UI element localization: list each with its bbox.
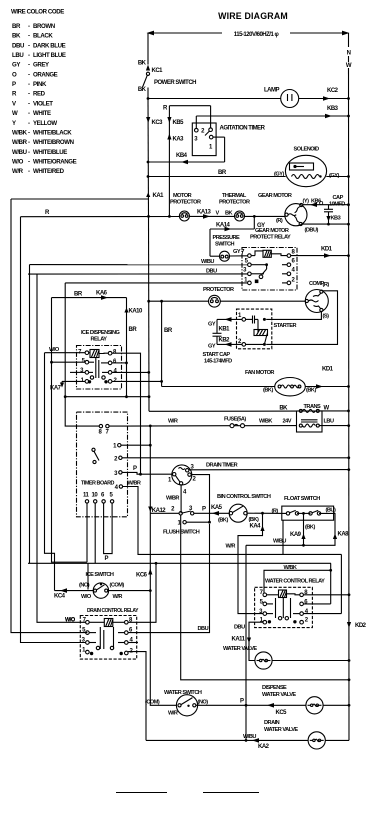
svg-text:(BU): (BU) xyxy=(326,508,336,514)
svg-text:KA10: KA10 xyxy=(129,309,144,315)
svg-text:KD2: KD2 xyxy=(355,623,367,629)
svg-text:W: W xyxy=(324,406,330,412)
drain water valve L4 xyxy=(264,720,325,749)
svg-text:KC2: KC2 xyxy=(327,88,339,94)
svg-text:KC6: KC6 xyxy=(136,573,148,579)
svg-text:KA14: KA14 xyxy=(216,223,231,229)
svg-text:KC5: KC5 xyxy=(276,710,288,716)
wire: KD1 from relay pin8 to bus xyxy=(291,247,350,258)
timer board U3 xyxy=(77,412,128,517)
capacitor C2 start cap xyxy=(203,319,233,364)
wire: W/BU line to relay pin5 xyxy=(30,259,248,265)
wire: water valve to bus xyxy=(272,659,350,662)
svg-text:KA9: KA9 xyxy=(290,532,302,538)
svg-text:FAN MOTOR: FAN MOTOR xyxy=(245,370,274,376)
svg-text:MOTOR: MOTOR xyxy=(173,193,192,199)
lamp DS1 xyxy=(281,90,299,108)
svg-text:KB2: KB2 xyxy=(219,338,231,344)
wire: BR KA6 line xyxy=(52,291,127,300)
fuse F1 xyxy=(230,424,245,428)
svg-text:SWITCH: SWITCH xyxy=(215,242,235,248)
svg-text:PROTECTOR: PROTECTOR xyxy=(170,200,201,206)
svg-text:KC1: KC1 xyxy=(152,68,164,74)
svg-text:WHITE/BROWN: WHITE/BROWN xyxy=(33,139,74,146)
wire: R line xyxy=(21,210,180,217)
svg-text:W/BK: W/BK xyxy=(284,565,297,571)
svg-text:GEAR MOTOR: GEAR MOTOR xyxy=(258,193,292,199)
drain control relay K4 xyxy=(80,608,138,659)
node KA13 xyxy=(189,210,234,219)
wire: ice switch COM to KC6 node xyxy=(108,590,151,592)
svg-text:KB4: KB4 xyxy=(176,153,188,159)
wire: bus below switch xyxy=(147,88,149,99)
svg-text:WATER VALVE: WATER VALVE xyxy=(262,692,296,698)
svg-text:W/BK: W/BK xyxy=(259,419,272,425)
wire: drop to ice switch NO xyxy=(87,563,89,589)
wire: timer pin1 line to bus xyxy=(121,444,152,447)
transformer T1 xyxy=(297,404,323,432)
title xyxy=(218,11,288,21)
svg-text:BR: BR xyxy=(74,292,83,298)
wire: line at 396.7 from W/BU vertical to bus xyxy=(64,395,151,398)
wire: water relay pin1 DBU KA11 to water valve xyxy=(232,622,264,660)
wire: drain timer pin3 to bus xyxy=(189,468,350,471)
node KA3 xyxy=(167,134,184,143)
svg-text:(R): (R) xyxy=(276,218,283,224)
svg-text:KA8: KA8 xyxy=(338,532,350,538)
wire: gear motor Y lead to bus xyxy=(303,202,350,207)
svg-text:PINK: PINK xyxy=(33,81,47,88)
svg-text:PROTECT RELAY: PROTECT RELAY xyxy=(250,235,291,241)
svg-text:(COM): (COM) xyxy=(145,700,160,706)
svg-text:W/O: W/O xyxy=(65,618,76,624)
protector xyxy=(209,295,221,307)
svg-text:P: P xyxy=(133,466,137,472)
svg-text:(BK): (BK) xyxy=(263,388,273,394)
relay K5 coil xyxy=(279,590,287,598)
svg-text:DRAIN TIMER: DRAIN TIMER xyxy=(206,463,238,469)
svg-text:BIN CONTROL SWITCH: BIN CONTROL SWITCH xyxy=(217,494,271,500)
node KA14 / GY drop xyxy=(245,215,286,229)
relay K1 coil xyxy=(263,250,271,257)
svg-text:(DBU): (DBU) xyxy=(305,228,319,234)
wire: 115-120V supply line with arrows xyxy=(147,31,350,38)
wire: timer pin4 W/BR line down xyxy=(123,481,342,555)
svg-text:FLUSH SWITCH: FLUSH SWITCH xyxy=(163,530,200,536)
wire: left hot bus top xyxy=(147,33,149,65)
wire: KA10 BR vertical xyxy=(124,298,143,397)
svg-text:KB3: KB3 xyxy=(331,216,341,222)
svg-text:WATER VALVE: WATER VALVE xyxy=(223,646,257,652)
svg-text:GEAR MOTOR: GEAR MOTOR xyxy=(255,228,289,234)
svg-text:ORANGE: ORANGE xyxy=(33,71,58,78)
svg-text:WHITE/RED: WHITE/RED xyxy=(33,168,65,175)
svg-text:W/BR: W/BR xyxy=(12,139,28,146)
svg-text:P: P xyxy=(202,507,206,513)
svg-text:BK: BK xyxy=(138,87,147,93)
node KB5 xyxy=(167,106,184,218)
wire: GY pressure switch loop xyxy=(210,223,254,257)
svg-text:BROWN: BROWN xyxy=(33,23,55,30)
svg-text:DRAIN: DRAIN xyxy=(264,720,280,726)
svg-text:(R): (R) xyxy=(323,282,330,288)
svg-text:TIMER BOARD: TIMER BOARD xyxy=(81,481,114,487)
svg-text:PRESSURE: PRESSURE xyxy=(213,235,241,241)
wire: hot bus into transformer primary xyxy=(149,410,297,412)
gear motor protect relay K1 xyxy=(241,228,297,290)
svg-text:N: N xyxy=(347,51,351,57)
svg-text:RED: RED xyxy=(33,91,46,98)
wire: drain relay pin8 up to long line xyxy=(128,562,157,622)
svg-text:W/O: W/O xyxy=(12,159,24,166)
svg-text:WHITE: WHITE xyxy=(33,110,51,117)
svg-text:LAMP: LAMP xyxy=(264,88,279,94)
svg-text:GY: GY xyxy=(208,344,216,350)
wire: left bundle vertical V1 (KA1) xyxy=(11,199,87,633)
svg-text:BR: BR xyxy=(164,328,173,334)
water control relay K5 xyxy=(255,579,326,628)
svg-text:WHITE/BLUE: WHITE/BLUE xyxy=(33,149,67,156)
svg-text:KA5: KA5 xyxy=(211,505,223,511)
wire: timer pin3 P line to drain timer pin1 xyxy=(122,466,172,474)
wire: comp R lead down right side xyxy=(266,291,337,345)
wire: P / W-BU drop to bottom valves xyxy=(245,545,248,740)
svg-text:KA3: KA3 xyxy=(173,137,185,143)
svg-text:KA1: KA1 xyxy=(153,193,165,199)
wire: water relay pin8 to bus xyxy=(303,593,350,596)
svg-text:(GY): (GY) xyxy=(329,173,339,179)
solenoid L1 xyxy=(285,147,326,187)
svg-text:KB3: KB3 xyxy=(327,106,339,112)
wire: timer pin2 line to bus xyxy=(122,456,350,459)
svg-text:KD1: KD1 xyxy=(321,247,333,253)
node KD2 xyxy=(347,622,367,629)
power switch S1 xyxy=(138,72,196,93)
wire: dispense valve to bus xyxy=(323,704,350,707)
water valve L2 xyxy=(223,646,272,669)
svg-text:BLACK: BLACK xyxy=(33,33,53,40)
wire: trans W top lead to bus xyxy=(319,406,350,413)
svg-text:CAP: CAP xyxy=(333,195,344,201)
wire: BR solenoid line xyxy=(147,170,350,179)
fan motor M3 xyxy=(245,370,316,396)
svg-text:BK: BK xyxy=(279,406,288,412)
svg-text:WATER CONTROL RELAY: WATER CONTROL RELAY xyxy=(265,579,325,585)
svg-text:KC3: KC3 xyxy=(152,120,164,126)
svg-text:O: O xyxy=(12,71,17,78)
svg-text:KA11: KA11 xyxy=(232,637,246,643)
thermal protector xyxy=(219,193,250,221)
svg-text:W/BU: W/BU xyxy=(273,539,286,545)
svg-text:RELAY: RELAY xyxy=(91,337,108,343)
wire: ice disp pin8 down to drain timer line xyxy=(112,353,141,474)
wire: drain relay pin6 DBU line xyxy=(128,524,209,633)
svg-text:(BK): (BK) xyxy=(306,388,316,394)
svg-text:W/R: W/R xyxy=(168,711,178,717)
capacitor C1 10MFD xyxy=(324,195,345,224)
svg-text:24V: 24V xyxy=(283,419,292,425)
wire: W/O into ice disp relay pin7 xyxy=(45,347,86,353)
ice switch S5 xyxy=(79,572,124,600)
svg-text:10MFD: 10MFD xyxy=(329,202,345,208)
wire: left bundle vertical V2 (R) xyxy=(21,217,86,643)
ice dispensing relay K3 xyxy=(77,330,122,389)
svg-text:BR: BR xyxy=(218,170,227,176)
svg-text:P: P xyxy=(105,556,109,562)
svg-text:BR: BR xyxy=(12,23,21,30)
wire: left bundle vertical V4 (W/O drain relay) xyxy=(37,274,86,622)
legend: wire color code xyxy=(11,9,77,176)
gear motor M1 xyxy=(258,193,324,234)
wire: 24V LBU lead to bus xyxy=(319,419,350,428)
svg-text:KA13: KA13 xyxy=(197,210,212,216)
wire: water relay pin4 to right vertical xyxy=(303,554,341,613)
wire: bin to float line, KA4 drop xyxy=(226,512,287,614)
wire: KC4 line into ice switch xyxy=(54,588,94,599)
wire: float box drop to W/BR line xyxy=(282,520,284,554)
wire: KB3 line from agitation pin3 to right bus xyxy=(196,106,350,128)
svg-text:(BK): (BK) xyxy=(305,525,315,531)
svg-text:SOLENOID: SOLENOID xyxy=(294,147,320,153)
pressure switch xyxy=(210,235,248,261)
svg-text:W/R: W/R xyxy=(113,594,123,600)
svg-text:(BK): (BK) xyxy=(218,518,228,524)
wire: KB1 line with start cap xyxy=(208,317,242,332)
wire: W/R drop to water switch xyxy=(150,591,176,706)
svg-text:W: W xyxy=(12,110,18,117)
bin control switch S3 xyxy=(217,494,271,524)
wire: KB4 line xyxy=(147,153,225,164)
agitation timer U2 xyxy=(192,123,265,156)
svg-text:YELLOW: YELLOW xyxy=(33,120,57,127)
svg-text:KA7: KA7 xyxy=(50,386,62,392)
svg-text:PROTECTOR: PROTECTOR xyxy=(219,200,250,206)
svg-text:KA2: KA2 xyxy=(258,744,270,750)
svg-text:KB1: KB1 xyxy=(219,327,231,333)
svg-text:WIRE DIAGRAM: WIRE DIAGRAM xyxy=(218,11,288,21)
svg-text:VIOLET: VIOLET xyxy=(33,100,53,107)
svg-text:THERMAL: THERMAL xyxy=(222,193,247,199)
wire: W/BU drain valve line xyxy=(146,734,308,750)
svg-text:ICE SWITCH: ICE SWITCH xyxy=(86,572,114,578)
svg-text:AGITATION TIMER: AGITATION TIMER xyxy=(220,126,266,132)
svg-text:BK: BK xyxy=(138,61,147,67)
node KC1 xyxy=(138,61,163,75)
dispense water valve L3 xyxy=(262,685,323,714)
svg-text:GY: GY xyxy=(208,322,216,328)
svg-text:W/BR: W/BR xyxy=(166,496,179,502)
wire: float right KA8 drop and W/BU run xyxy=(246,513,349,545)
node N/W labels right bus top xyxy=(346,51,352,70)
drain timer M4 xyxy=(168,463,238,496)
svg-text:POWER SWITCH: POWER SWITCH xyxy=(154,80,196,86)
svg-text:W/BU: W/BU xyxy=(243,734,256,740)
svg-text:(NO): (NO) xyxy=(198,700,209,706)
wire: ice disp pin2 to BR wire xyxy=(112,380,163,383)
svg-text:DBU: DBU xyxy=(206,269,217,275)
wire: left bundle vertical V3 (DBU top) xyxy=(29,265,31,564)
wire: ice disp pin4 to hot bus xyxy=(112,371,150,374)
wire: left bundle vertical V7 (W/BU) xyxy=(65,283,99,426)
svg-text:FLOAT SWITCH: FLOAT SWITCH xyxy=(284,496,320,502)
svg-text:W/BR: W/BR xyxy=(128,481,141,487)
node KC3 xyxy=(146,117,163,126)
svg-text:W/BU: W/BU xyxy=(201,259,214,265)
wire: timer pins 6-5 P jumper xyxy=(104,503,113,562)
wire: drain timer pin4 W/BR down xyxy=(166,485,181,513)
svg-text:DBU: DBU xyxy=(198,626,209,632)
svg-text:(NO): (NO) xyxy=(79,583,90,589)
wire: water switch NO to dispense valve xyxy=(196,699,306,717)
svg-text:W/O: W/O xyxy=(81,594,92,600)
svg-text:KA4: KA4 xyxy=(250,524,262,530)
wire: ice disp pin3 stub xyxy=(70,371,85,373)
wire: DBU line to relay pin3 xyxy=(28,269,248,275)
svg-text:Y: Y xyxy=(12,120,16,127)
svg-text:P: P xyxy=(240,699,244,705)
wire: drain valve to bus end xyxy=(325,739,349,741)
wire: drain relay pin4 stub xyxy=(128,642,138,644)
svg-text:GY: GY xyxy=(12,62,20,69)
wire: right neutral bus xyxy=(348,33,350,47)
wire: drain relay pin2 down to drain valve line xyxy=(128,652,146,741)
svg-text:LBU: LBU xyxy=(324,419,334,425)
svg-text:LBU: LBU xyxy=(12,52,24,59)
svg-text:(GY): (GY) xyxy=(274,172,284,178)
svg-text:W/R: W/R xyxy=(168,419,178,425)
svg-text:STARTER: STARTER xyxy=(274,323,297,329)
svg-text:DISPENSE: DISPENSE xyxy=(262,685,287,691)
svg-text:W/R: W/R xyxy=(12,168,24,175)
svg-text:115-120V/60HZ/1 φ: 115-120V/60HZ/1 φ xyxy=(234,32,280,38)
svg-text:(COM): (COM) xyxy=(110,583,125,589)
motor protector xyxy=(170,193,201,221)
svg-text:(R): (R) xyxy=(272,509,279,515)
svg-text:W/BU: W/BU xyxy=(12,149,28,156)
svg-text:W/BK: W/BK xyxy=(12,130,28,137)
svg-text:145-174MFD: 145-174MFD xyxy=(204,359,232,365)
svg-text:(Y): (Y) xyxy=(303,199,310,205)
svg-text:WIRE COLOR CODE: WIRE COLOR CODE xyxy=(11,9,64,16)
svg-text:(BK): (BK) xyxy=(249,517,259,523)
svg-text:KA6: KA6 xyxy=(96,291,108,297)
wire: lamp line KC2 xyxy=(148,88,350,101)
svg-text:KB5: KB5 xyxy=(173,120,185,126)
svg-text:WHITE/ORANGE: WHITE/ORANGE xyxy=(33,159,77,166)
wire: W/BK from long line to water relay pin7 xyxy=(264,565,331,593)
wire: protector line xyxy=(147,287,305,303)
wire: long W/O line at y563 xyxy=(28,562,331,564)
svg-text:BK: BK xyxy=(12,33,21,40)
wire: timer pin11 down to V6 turn xyxy=(86,503,88,562)
wire: KA1 line from far left xyxy=(11,198,148,200)
svg-text:WATER VALVE: WATER VALVE xyxy=(264,727,298,733)
float switch S4 xyxy=(272,496,336,531)
timer board contact xyxy=(92,448,95,451)
wire: BR drop to fan motor line xyxy=(162,301,173,386)
node KA1 xyxy=(146,193,164,200)
starter K2 xyxy=(237,309,297,349)
wire: float common KA9 drop xyxy=(290,513,306,546)
wire: KA12/KC6 vertical xyxy=(136,426,166,592)
relay K3 coil xyxy=(90,350,99,358)
svg-text:(S): (S) xyxy=(323,314,330,320)
relay K4 coil xyxy=(104,619,113,627)
wire: flush to bin line with KA5 xyxy=(194,505,229,516)
wire: R line to agitation timer xyxy=(163,106,211,128)
wire: left bundle vertical V5 (ice disp pin7 to KC4) xyxy=(45,353,55,591)
wire: timer pin10 down to long line xyxy=(94,503,96,563)
wire: water relay pin6 up to long line xyxy=(303,563,332,604)
svg-text:DARK BLUE: DARK BLUE xyxy=(33,42,66,49)
svg-text:BK: BK xyxy=(225,211,233,217)
wire: ice disp pin1 to KA7 xyxy=(50,381,85,391)
wire: comp S lead to starter xyxy=(266,312,321,320)
wire: agitation pin1 to KB4 line xyxy=(213,137,225,162)
svg-text:DBU: DBU xyxy=(234,625,245,631)
wire: gear motor DBU lead to bus xyxy=(302,223,350,226)
svg-text:DBU: DBU xyxy=(12,42,25,49)
svg-text:KC4: KC4 xyxy=(54,594,66,600)
svg-text:W/O: W/O xyxy=(49,347,60,353)
wire: fan motor line to bus KD1 xyxy=(162,367,350,389)
flush switch S2 xyxy=(150,506,350,681)
wire: W/R fuse line from timer board pin7 xyxy=(109,417,296,428)
wire: ice disp pin6 to KA10 wire xyxy=(112,362,128,365)
svg-text:GY: GY xyxy=(233,249,241,255)
svg-text:START CAP: START CAP xyxy=(203,352,231,358)
svg-text:LIGHT BLUE: LIGHT BLUE xyxy=(33,52,66,59)
svg-text:W/R: W/R xyxy=(226,544,236,550)
wire: bottom underline marks xyxy=(116,792,259,794)
svg-text:BR: BR xyxy=(129,327,138,333)
svg-text:GREY: GREY xyxy=(33,62,49,69)
water switch S6 xyxy=(145,690,208,717)
svg-text:FUSE(5A): FUSE(5A) xyxy=(224,417,246,423)
wire: ice disp pin5 tap from V6 xyxy=(50,361,85,364)
compressor M2 xyxy=(305,281,329,320)
svg-text:WHITE/BLACK: WHITE/BLACK xyxy=(33,130,72,137)
wire: left bundle vertical V6 (KA6/BR) xyxy=(52,298,88,563)
wire: drain timer pin2 down to flush1 line xyxy=(191,475,209,523)
wire: line to relay pin1 xyxy=(65,282,247,284)
svg-text:DRAIN CONTROL RELAY: DRAIN CONTROL RELAY xyxy=(87,608,139,614)
wire: KB2 line xyxy=(208,338,242,350)
svg-text:PROTECTOR: PROTECTOR xyxy=(203,287,234,293)
svg-text:KD1: KD1 xyxy=(322,367,334,373)
svg-text:P: P xyxy=(12,81,16,88)
svg-text:ICE DISPENSING: ICE DISPENSING xyxy=(81,330,120,336)
